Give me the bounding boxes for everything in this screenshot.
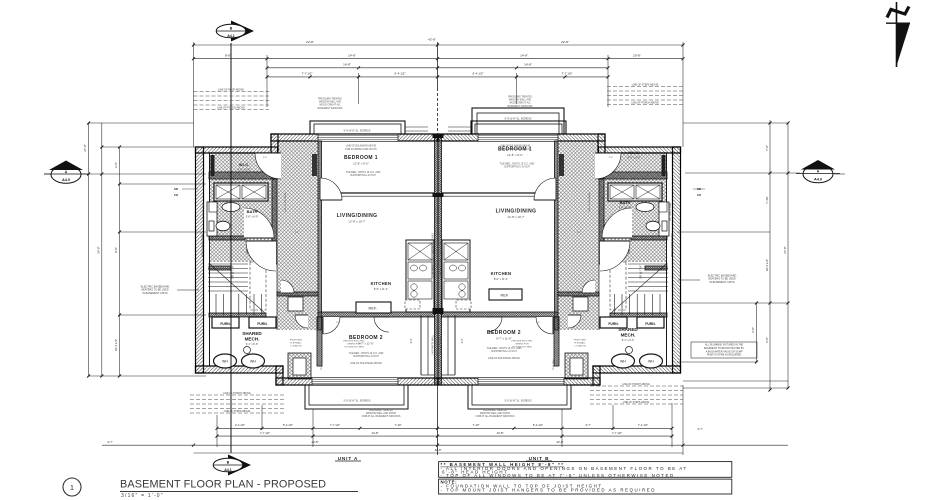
- svg-text:3/16" = 1'-0": 3/16" = 1'-0": [121, 493, 164, 499]
- svg-text:14'-8": 14'-8": [520, 54, 528, 58]
- svg-text:SUPPORTING LAYOUT: SUPPORTING LAYOUT: [353, 355, 379, 358]
- svg-text:WINDOW WELL AND WOOD: WINDOW WELL AND WOOD: [366, 412, 397, 415]
- svg-text:10'-6 1/2": 10'-6 1/2": [114, 339, 118, 351]
- svg-text:7'-1 1/2": 7'-1 1/2": [638, 423, 648, 427]
- svg-text:10'-6 1/2": 10'-6 1/2": [765, 259, 769, 271]
- svg-text:WH: WH: [222, 360, 228, 364]
- svg-text:2'-6": 2'-6": [577, 232, 582, 234]
- svg-text:LIVING/DINING: LIVING/DINING: [496, 209, 537, 215]
- svg-text:SD: SD: [174, 187, 178, 191]
- svg-text:WIRING FOR: WIRING FOR: [347, 344, 361, 346]
- svg-text:FUTURE KITCHEN: FUTURE KITCHEN: [344, 347, 364, 349]
- svg-text:SUPPORTING LAYOUT: SUPPORTING LAYOUT: [350, 174, 376, 177]
- svg-text:7'-7 1/2": 7'-7 1/2": [612, 431, 622, 435]
- svg-text:9'-7" x 11'-6": 9'-7" x 11'-6": [496, 337, 511, 341]
- svg-text:IN BASEMENT UNITS: IN BASEMENT UNITS: [142, 292, 167, 295]
- svg-text:FURN.: FURN.: [220, 322, 230, 326]
- svg-text:4'-7": 4'-7": [107, 440, 113, 444]
- svg-text:9'-1" x 9'-6": 9'-1" x 9'-6": [246, 343, 259, 346]
- svg-text:5'-4 1/2": 5'-4 1/2": [283, 423, 293, 427]
- svg-text:22'-8": 22'-8": [561, 40, 569, 44]
- svg-text:CRIB AT ALL BASEMENT WINDOWS: CRIB AT ALL BASEMENT WINDOWS: [476, 415, 515, 418]
- svg-text:SHARED: SHARED: [242, 331, 262, 336]
- svg-text:IN BASEMENT UNITS: IN BASEMENT UNITS: [709, 281, 734, 284]
- svg-text:NEW FOUNDATION WALL: NEW FOUNDATION WALL: [201, 232, 204, 257]
- svg-text:1: 1: [70, 483, 74, 492]
- svg-text:2'-8": 2'-8": [114, 162, 118, 168]
- svg-text:7'-10": 7'-10": [765, 196, 769, 203]
- svg-text:BATH: BATH: [247, 209, 258, 214]
- svg-text:BATH: BATH: [620, 200, 631, 205]
- svg-text:- TOP OF ALL WINDOWS TO BE AT: - TOP OF ALL WINDOWS TO BE AT 7'-8" UNLE…: [441, 473, 675, 478]
- svg-text:27'-8": 27'-8": [783, 246, 787, 253]
- svg-text:5'-0"x3'-8" SL. EGRESS: 5'-0"x3'-8" SL. EGRESS: [505, 118, 532, 121]
- svg-text:LINE OF STEPS ABOVE: LINE OF STEPS ABOVE: [632, 84, 659, 87]
- svg-text:LINE OF BULKHEAD ABOVE: LINE OF BULKHEAD ABOVE: [488, 357, 520, 360]
- svg-text:1 HR PARTY WALL - SEE DETAIL 1: 1 HR PARTY WALL - SEE DETAIL 1/A5.0: [440, 232, 443, 277]
- svg-text:MECH.: MECH.: [621, 332, 636, 337]
- svg-text:KITCHEN: KITCHEN: [491, 271, 512, 276]
- svg-text:6'-4 1/2": 6'-4 1/2": [473, 72, 484, 76]
- svg-text:42'-8": 42'-8": [434, 448, 441, 452]
- svg-text:PROVIDE ELECTRIC: PROVIDE ELECTRIC: [343, 340, 365, 342]
- svg-text:BASEMENT WINDOWS: BASEMENT WINDOWS: [508, 105, 533, 108]
- svg-text:7'-7 1/2": 7'-7 1/2": [562, 72, 573, 76]
- svg-text:2'-6": 2'-6": [536, 322, 541, 324]
- svg-text:1 HR PARTY WALL: 1 HR PARTY WALL: [440, 334, 443, 356]
- svg-text:10R @ 7 3/4": 10R @ 7 3/4": [232, 265, 235, 279]
- svg-text:14'-8": 14'-8": [371, 431, 378, 435]
- svg-text:LINE OF PORCH ABOVE: LINE OF PORCH ABOVE: [217, 107, 245, 110]
- svg-text:WINDOW WELL AND: WINDOW WELL AND: [319, 101, 342, 104]
- svg-text:LOCATION: LOCATION: [290, 345, 301, 348]
- svg-text:FLEXWALL: FLEXWALL: [290, 342, 302, 345]
- svg-text:3'-0": 3'-0": [461, 338, 464, 343]
- svg-text:2'-6": 2'-6": [336, 322, 341, 324]
- svg-text:42'-8": 42'-8": [428, 38, 436, 42]
- svg-text:LINE OF STEPS ABOVE: LINE OF STEPS ABOVE: [224, 410, 251, 413]
- svg-text:12'-8" x 9'-0": 12'-8" x 9'-0": [353, 162, 369, 166]
- svg-text:2'-6": 2'-6": [609, 157, 614, 159]
- svg-text:14'-8": 14'-8": [348, 54, 356, 58]
- svg-text:NEW FOUNDATION WALL: NEW FOUNDATION WALL: [671, 232, 674, 257]
- svg-text:27'-8": 27'-8": [83, 144, 87, 151]
- svg-text:14'-8": 14'-8": [496, 431, 503, 435]
- svg-text:BASEMENT WINDOWS: BASEMENT WINDOWS: [318, 107, 343, 110]
- svg-text:A4.0: A4.0: [62, 178, 70, 182]
- svg-text:BASEMENT FLOOR PLAN - PROPOSED: BASEMENT FLOOR PLAN - PROPOSED: [120, 479, 326, 491]
- svg-text:LINE OF ROOF ABOVE: LINE OF ROOF ABOVE: [218, 89, 244, 92]
- svg-text:LINE OF PORCH ABOVE: LINE OF PORCH ABOVE: [631, 102, 659, 105]
- svg-text:5/8" TYPE X GWB: 5/8" TYPE X GWB: [670, 202, 672, 221]
- svg-text:REF.: REF.: [501, 294, 510, 298]
- svg-text:7'-10": 7'-10": [472, 423, 479, 427]
- svg-text:PROPOSED: PROPOSED: [574, 339, 587, 341]
- svg-text:WH: WH: [620, 360, 626, 364]
- svg-text:3'-0": 3'-0": [410, 338, 413, 343]
- svg-text:5'-0"x3'-8" SL. EGRESS: 5'-0"x3'-8" SL. EGRESS: [344, 130, 371, 133]
- svg-text:SUPPORTING LAYOUT: SUPPORTING LAYOUT: [504, 166, 530, 169]
- svg-text:WOOD CRIB AT ALL: WOOD CRIB AT ALL: [509, 102, 531, 105]
- svg-text:5'-4 1/2": 5'-4 1/2": [533, 423, 543, 427]
- svg-text:8'-8": 8'-8": [225, 54, 231, 58]
- svg-text:12'-8" x 9'-0": 12'-8" x 9'-0": [507, 153, 523, 157]
- svg-text:PUMP SYSTEM AS REQUIRED: PUMP SYSTEM AS REQUIRED: [707, 354, 742, 357]
- svg-text:6'-8": 6'-8": [751, 327, 755, 333]
- svg-text:FLEXWALL: FLEXWALL: [574, 342, 586, 345]
- svg-text:6'-0" x 5'-8": 6'-0" x 5'-8": [237, 168, 250, 172]
- svg-text:7'-8": 7'-8": [765, 145, 769, 151]
- svg-text:LINE OF PORCH ABOVE: LINE OF PORCH ABOVE: [223, 392, 251, 395]
- svg-text:LINE OF BULKHEAD ABOVE: LINE OF BULKHEAD ABOVE: [350, 362, 382, 365]
- svg-text:7'-7 1/2": 7'-7 1/2": [330, 423, 340, 427]
- svg-text:20'-8": 20'-8": [633, 54, 641, 58]
- svg-text:W.I.C.: W.I.C.: [629, 151, 639, 155]
- svg-text:FURN.: FURN.: [645, 322, 655, 326]
- svg-text:12'-8" x 10'-7": 12'-8" x 10'-7": [507, 215, 524, 219]
- svg-text:PRESSURE TREATED: PRESSURE TREATED: [483, 409, 507, 412]
- svg-text:LINE OF BULKHEAD: LINE OF BULKHEAD: [284, 192, 287, 212]
- svg-text:A4.0: A4.0: [814, 178, 822, 182]
- svg-text:8'-8": 8'-8": [114, 247, 118, 253]
- svg-text:LINE OF BULKHEAD ABOVE: LINE OF BULKHEAD ABOVE: [500, 145, 531, 148]
- svg-text:4'-7": 4'-7": [585, 423, 591, 427]
- svg-text:7'-10": 7'-10": [394, 423, 401, 427]
- svg-text:14'-8": 14'-8": [524, 63, 532, 67]
- svg-text:BEDROOM 1: BEDROOM 1: [344, 155, 378, 161]
- svg-text:FURN.: FURN.: [257, 322, 267, 326]
- svg-text:5'-0"x3'-8" SL. EGRESS: 5'-0"x3'-8" SL. EGRESS: [505, 400, 532, 403]
- svg-text:22'-8": 22'-8": [306, 40, 314, 44]
- svg-text:1 HR PARTY WALL: 1 HR PARTY WALL: [432, 334, 435, 356]
- svg-text:PRESSURE TREATED: PRESSURE TREATED: [508, 96, 532, 99]
- svg-text:SUPPORTING LAYOUT: SUPPORTING LAYOUT: [491, 350, 517, 353]
- svg-text:WH: WH: [648, 360, 654, 364]
- svg-text:REF.: REF.: [369, 307, 378, 311]
- svg-text:LOCATION: LOCATION: [574, 345, 585, 348]
- svg-text:PRESSURE TREATED: PRESSURE TREATED: [318, 98, 342, 101]
- svg-text:2'-6": 2'-6": [263, 157, 268, 159]
- svg-text:KITCHEN: KITCHEN: [371, 281, 392, 286]
- svg-text:LINE OF STEPS ABOVE: LINE OF STEPS ABOVE: [623, 401, 650, 404]
- svg-text:6'-0" x 5'-8": 6'-0" x 5'-8": [627, 156, 640, 160]
- svg-text:LINE OF BULKHEAD ABOVE: LINE OF BULKHEAD ABOVE: [346, 145, 377, 148]
- svg-text:FLEX WALL: FLEX WALL: [320, 357, 323, 369]
- svg-text:24'-8": 24'-8": [97, 246, 101, 253]
- svg-text:FURN.: FURN.: [608, 322, 618, 326]
- svg-text:7'-7 1/2": 7'-7 1/2": [260, 431, 270, 435]
- svg-text:9'-1" x 9'-6": 9'-1" x 9'-6": [622, 339, 635, 342]
- svg-text:8'-6" x 11'-4": 8'-6" x 11'-4": [374, 287, 388, 291]
- svg-text:FLEX WALL: FLEX WALL: [552, 357, 555, 369]
- svg-text:5'-8" x 8'-9": 5'-8" x 8'-9": [246, 215, 259, 218]
- svg-text:22'-8": 22'-8": [556, 440, 563, 444]
- svg-text:2'-4 1/2": 2'-4 1/2": [235, 423, 245, 427]
- svg-text:12'-8" x 10'-7": 12'-8" x 10'-7": [348, 220, 365, 224]
- svg-text:CRIB AT ALL BASEMENT WINDOWS: CRIB AT ALL BASEMENT WINDOWS: [362, 415, 401, 418]
- svg-text:6'-8": 6'-8": [765, 337, 769, 343]
- svg-text:W.I.C.: W.I.C.: [239, 163, 249, 167]
- svg-text:- TOP MOUNT JOIST HANGERS TO B: - TOP MOUNT JOIST HANGERS TO BE PROVIDED…: [441, 487, 656, 492]
- svg-text:WINDOW WELL AND WOOD: WINDOW WELL AND WOOD: [480, 412, 511, 415]
- svg-text:PROVIDE ELECTRIC: PROVIDE ELECTRIC: [511, 340, 533, 342]
- svg-text:FUTURE KITCHEN: FUTURE KITCHEN: [512, 347, 532, 349]
- svg-text:4'-7": 4'-7": [697, 427, 703, 431]
- svg-text:BEDROOM 2: BEDROOM 2: [487, 330, 521, 336]
- svg-text:UNIT A: UNIT A: [338, 456, 359, 461]
- svg-text:LINE OF PORCH ABOVE: LINE OF PORCH ABOVE: [622, 383, 650, 386]
- svg-text:8'-6" x 11'-4": 8'-6" x 11'-4": [494, 277, 508, 281]
- svg-text:WOOD CRIB AT ALL: WOOD CRIB AT ALL: [319, 104, 341, 107]
- svg-text:22'-8": 22'-8": [311, 440, 318, 444]
- svg-text:1 HR PARTY WALL - SEE DETAIL 1: 1 HR PARTY WALL - SEE DETAIL 1/A5.0: [432, 232, 435, 277]
- svg-text:FOR PLUMBING AND DUCTS: FOR PLUMBING AND DUCTS: [499, 148, 531, 151]
- svg-text:A4.1: A4.1: [227, 34, 235, 38]
- svg-text:LIVING/DINING: LIVING/DINING: [337, 213, 378, 219]
- svg-text:10R @ 7 3/4": 10R @ 7 3/4": [640, 265, 643, 279]
- svg-text:UNIT B: UNIT B: [529, 456, 550, 461]
- svg-text:WINDOW WELL AND: WINDOW WELL AND: [509, 99, 532, 102]
- svg-text:MECH.: MECH.: [245, 336, 260, 341]
- svg-text:WH: WH: [250, 360, 256, 364]
- svg-text:6'-4 1/2": 6'-4 1/2": [395, 72, 406, 76]
- svg-text:5/8" TYPE X GWB: 5/8" TYPE X GWB: [203, 202, 205, 221]
- svg-text:LINE OF BULKHEAD: LINE OF BULKHEAD: [588, 192, 591, 212]
- svg-text:5'-0"x3'-8" SL. EGRESS: 5'-0"x3'-8" SL. EGRESS: [344, 400, 371, 403]
- svg-text:SHARED: SHARED: [618, 327, 638, 332]
- svg-text:2'-6": 2'-6": [295, 232, 300, 234]
- svg-text:PRESSURE TREATED: PRESSURE TREATED: [369, 409, 393, 412]
- svg-text:FOR PLUMBING AND DUCTS: FOR PLUMBING AND DUCTS: [345, 148, 377, 151]
- svg-text:14'-8": 14'-8": [343, 63, 351, 67]
- svg-text:5'-8" x 8'-9": 5'-8" x 8'-9": [619, 206, 632, 209]
- svg-text:PROPOSED: PROPOSED: [290, 339, 303, 341]
- svg-text:WIRING FOR: WIRING FOR: [515, 344, 529, 346]
- svg-text:7'-7 1/2": 7'-7 1/2": [302, 72, 313, 76]
- svg-text:A4.1: A4.1: [224, 468, 232, 472]
